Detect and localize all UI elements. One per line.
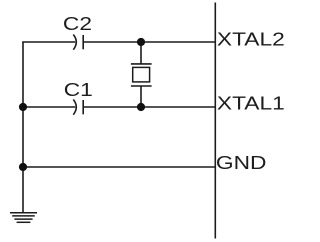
wire GND segment [23, 166, 215, 168]
ground [10, 213, 37, 223]
svg-text:XTAL2: XTAL2 [217, 29, 285, 49]
capacitor C1 [73, 100, 83, 115]
node XTAL1 left junction [19, 103, 27, 111]
crystal Y1 [131, 42, 152, 107]
wire XTAL2 right segment [83, 41, 215, 43]
wire XTAL2 left segment [22, 41, 75, 43]
wire device edge vertical [214, 3, 216, 239]
wire XTAL1 left segment [23, 106, 75, 108]
node XTAL2 junction [137, 38, 145, 46]
wire XTAL1 right segment [83, 106, 215, 108]
wire left bus vertical [22, 42, 24, 213]
svg-text:C2: C2 [63, 14, 92, 34]
svg-text:C1: C1 [64, 80, 93, 100]
svg-text:GND: GND [216, 153, 267, 173]
node XTAL1 crystal junction [137, 103, 145, 111]
node GND junction [19, 163, 27, 171]
capacitor C2 [73, 35, 83, 50]
svg-text:XTAL1: XTAL1 [217, 93, 285, 113]
